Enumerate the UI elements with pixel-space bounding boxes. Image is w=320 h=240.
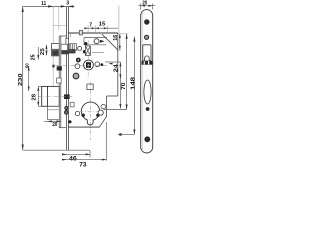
dim 50 vertical x29	[28, 66, 30, 91]
euro cylinder circle front view	[81, 102, 99, 120]
small screw circle left of cylinder	[75, 111, 79, 115]
latch head hatch dark	[52, 50, 59, 56]
deadbolt hatch crossing plate	[64, 94, 70, 99]
latch head side view	[52, 44, 60, 56]
case corner mark	[70, 33, 72, 38]
case front wall side view (double line)	[59, 36, 66, 128]
plate small screw below	[146, 107, 150, 111]
cylinder horizontal centerline	[80, 110, 104, 112]
small fixing tab on case top	[79, 30, 82, 35]
dim 46 line	[62, 150, 90, 157]
dim 25 label + line x38	[37, 47, 39, 60]
dim 70 line	[104, 34, 129, 110]
spindle axis dash-dot vertical	[87, 40, 89, 79]
dim line 7/15	[85, 27, 119, 29]
dim 230 bottom arrow	[22, 145, 24, 151]
svg-text:25: 25	[30, 54, 36, 60]
extension line left of case top	[53, 6, 67, 86]
dim line 11 horizontal at top	[23, 5, 75, 7]
svg-text:3: 3	[66, 0, 69, 6]
slot pill right of cylinder	[101, 105, 106, 109]
faceplate inner edge line	[141, 12, 143, 152]
deadbolt centerline dash-dot	[38, 96, 72, 98]
plate top screw hole	[144, 19, 149, 24]
case bottom-right step	[100, 96, 118, 127]
dim 24 line	[105, 62, 120, 109]
anchor block on back wall	[52, 65, 54, 68]
junction blob at case corner ext	[119, 133, 121, 135]
dim 20 stump width line	[44, 120, 61, 122]
spring anchor hatch on case front	[57, 66, 62, 70]
dim 15 arrows	[95, 27, 99, 29]
latch head in cutout	[145, 56, 150, 61]
svg-text:24: 24	[114, 64, 120, 72]
auxiliary plunger crossing plate	[66, 38, 69, 44]
dark hatch under latch guide	[68, 49, 76, 53]
plate bottom screw hole	[144, 136, 150, 142]
screw hole right of cylinder	[98, 110, 103, 115]
circle right of follower	[95, 62, 100, 67]
case right edge front view	[117, 33, 119, 96]
dim 25 small vertical at latch	[46, 45, 48, 56]
dim 230 vertical line	[22, 6, 24, 150]
small pin dot right	[100, 63, 103, 66]
dim 230 top arrow	[22, 6, 24, 12]
deadbolt stump box below head	[48, 106, 60, 119]
svg-text:25: 25	[40, 48, 46, 55]
svg-text:16: 16	[113, 35, 119, 41]
latch guide box inside case	[69, 44, 76, 51]
dim 16 line right of latch	[116, 34, 122, 51]
gray circle lower	[73, 73, 79, 79]
latch centerline dash-dot	[44, 49, 82, 51]
small bracket on case front	[57, 78, 62, 83]
svg-text:15: 15	[99, 22, 106, 28]
svg-text:50: 50	[24, 63, 29, 68]
svg-text:20: 20	[142, 1, 147, 7]
latch direction arrow	[100, 40, 105, 43]
svg-text:20: 20	[52, 122, 57, 128]
screws on plate side view	[65, 107, 68, 110]
euro cylinder slot	[87, 120, 93, 125]
dim 11 arrows	[48, 5, 53, 7]
case top line front view	[68, 32, 117, 34]
plate deadbolt slot ellipse	[144, 80, 151, 104]
svg-text:28: 28	[32, 94, 38, 101]
deadbolt head side view	[42, 86, 60, 106]
faceplate front view outline	[141, 10, 153, 153]
case bottom line front view	[68, 126, 99, 128]
cylinder vertical centerline	[90, 82, 92, 140]
dim 148 line	[118, 37, 135, 135]
spring box with X front view	[85, 46, 90, 55]
bottom extension line y150	[23, 149, 90, 151]
dark circle with pin	[76, 58, 81, 63]
latch bolt bevel diagonal top right	[102, 34, 118, 50]
plate adjust hole	[145, 35, 149, 39]
dim 73 line	[62, 122, 106, 161]
follower hub circle	[84, 60, 94, 70]
small stud circle	[78, 46, 82, 50]
cylinder retaining screw hole above	[87, 84, 93, 90]
latch circle front view	[94, 39, 99, 44]
follower centerline dash-dot	[55, 65, 108, 67]
latch body front view	[84, 38, 107, 45]
svg-text:11: 11	[41, 1, 46, 7]
cylinder screw dots	[82, 114, 85, 117]
dim 7 15 extension lines	[88, 6, 119, 34]
dim 20 arrows	[48, 120, 52, 122]
svg-text:148: 148	[130, 77, 136, 90]
stump inner line	[48, 109, 60, 111]
plate latch cutout	[143, 45, 151, 61]
outlined circle below	[75, 64, 80, 69]
dim 20 plate top	[138, 4, 155, 10]
follower square hole	[86, 62, 91, 68]
small dark pin	[83, 50, 86, 53]
faceplate side view (two vertical lines, 230 tall)	[66, 7, 68, 151]
svg-text:73: 73	[79, 163, 87, 168]
small dark pin upper	[84, 42, 87, 45]
dim 7 arrows	[84, 27, 88, 29]
svg-text:230: 230	[18, 74, 24, 87]
dim 3 arrow	[68, 5, 73, 7]
latch shaft crossing plate	[61, 44, 68, 50]
svg-text:70: 70	[121, 82, 127, 89]
latch hatch in cutout	[142, 61, 153, 65]
small parts left of cylinder	[70, 102, 74, 107]
dim 28 deadbolt	[38, 86, 41, 106]
spring arm line	[92, 51, 104, 53]
svg-text:7: 7	[89, 23, 92, 29]
follower center mark	[88, 64, 90, 66]
